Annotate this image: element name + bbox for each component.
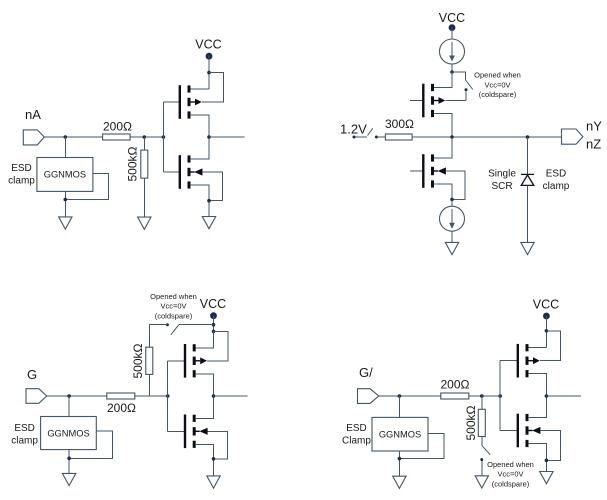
junction gate bus (G)	[166, 394, 170, 398]
wire GGNMOS feedback loop (G)	[69, 431, 113, 458]
wire NMOS source (Y)	[434, 184, 453, 199]
junction 500k tap	[143, 135, 147, 139]
wire 500k bottom to input line	[148, 374, 150, 396]
svg-text:clamp: clamp	[11, 436, 38, 447]
wire GGNMOS bottom to ground (G/)	[398, 451, 400, 476]
svg-text:(coldspare): (coldspare)	[155, 312, 193, 321]
junction gate bus (G/)	[498, 394, 502, 398]
current source I1	[440, 39, 465, 64]
svg-text:G: G	[27, 367, 37, 382]
transistor NMOS (G/)	[517, 414, 541, 448]
wire to current source 2	[451, 199, 453, 206]
wire NMOS body loop (Y)	[446, 171, 465, 199]
transistor NMOS (Y)	[422, 154, 446, 188]
svg-text:500kΩ: 500kΩ	[125, 146, 139, 181]
wire down to SCR diode	[527, 137, 529, 174]
port connector G/	[358, 389, 379, 404]
svg-text:Clamp: Clamp	[342, 436, 371, 447]
wire PMOS body from switch	[445, 100, 466, 102]
ground (SCR)	[521, 242, 534, 254]
VCC terminal dot (A)	[206, 53, 213, 60]
wire PMOS drain (G)	[195, 374, 213, 396]
wire VCC to current source	[451, 27, 453, 39]
svg-text:VCC: VCC	[533, 297, 559, 311]
wire VCC down to source (G)	[213, 316, 215, 348]
svg-text:ESD: ESD	[11, 163, 32, 174]
junction GGNMOS ground node (G/)	[398, 457, 402, 461]
wire VCC down to source (G/)	[545, 316, 547, 348]
VCC terminal dot (Y)	[449, 24, 456, 31]
wire NMOS body loop (G/)	[540, 431, 560, 461]
wire PMOS body loop (G)	[207, 331, 228, 360]
svg-text:200Ω: 200Ω	[441, 378, 470, 392]
junction drain node (Y)	[450, 135, 454, 139]
junction GGNMOS ground node	[64, 198, 68, 202]
wire GGNMOS bottom to ground (G)	[68, 450, 70, 474]
svg-text:GGNMOS: GGNMOS	[379, 430, 421, 440]
svg-text:300Ω: 300Ω	[385, 117, 414, 131]
junction NMOS source node (G)	[212, 457, 216, 461]
wire down to GGNMOS (G)	[68, 396, 70, 417]
wire NMOS gate lead (G)	[168, 430, 185, 432]
VCC terminal dot (G)	[210, 312, 217, 319]
junction SCR tap	[526, 135, 530, 139]
junction source/body node	[207, 71, 211, 75]
wire G to 200ohm	[47, 395, 107, 397]
svg-text:Vcc=0V: Vcc=0V	[160, 302, 186, 311]
junction NMOS source node	[207, 199, 211, 203]
terminal dot 1.2V	[353, 136, 356, 139]
wire to 300ohm	[378, 136, 386, 138]
svg-text:Single: Single	[488, 169, 516, 180]
VCC terminal dot (G/)	[543, 313, 550, 320]
junction below current source	[450, 70, 454, 74]
wire SCR to ground	[527, 185, 529, 242]
switch blade (1.2V)	[368, 128, 373, 135]
wire NMOS drain to output	[190, 137, 209, 159]
svg-text:Vcc=0V: Vcc=0V	[484, 81, 510, 90]
wire G/ to 200ohm	[379, 395, 441, 397]
svg-text:1.2V: 1.2V	[340, 122, 367, 137]
resistor 300ohm	[385, 134, 412, 140]
wire NMOS body loop	[202, 172, 222, 201]
svg-text:200Ω: 200Ω	[103, 120, 132, 134]
transistor PMOS (Y)	[422, 84, 445, 118]
switch coldspare (G)	[166, 323, 169, 326]
ground (inverter G)	[207, 476, 220, 488]
svg-text:Opened when: Opened when	[474, 71, 521, 80]
wire output stub (G/)	[546, 395, 581, 397]
junction switch node (G)	[212, 323, 216, 327]
wire 500k top to switch	[149, 325, 167, 348]
ground (GGNMOS G)	[62, 473, 75, 485]
svg-text:VCC: VCC	[195, 37, 221, 51]
current source I2	[440, 206, 465, 231]
wire NMOS source (G/)	[528, 444, 547, 472]
wire nA to 200ohm resistor	[44, 136, 102, 138]
wire GGNMOS feedback loop (G/)	[399, 433, 444, 458]
junction gate bus	[162, 135, 166, 139]
port connector G	[26, 389, 47, 404]
wire NMOS drain (G/)	[528, 396, 547, 418]
transistor PMOS (G/)	[517, 344, 540, 378]
svg-text:200Ω: 200Ω	[107, 401, 136, 415]
ground (GGNMOS G/)	[393, 476, 406, 488]
port connector nY/nZ	[562, 129, 583, 144]
svg-text:ESD: ESD	[14, 423, 35, 434]
diode single SCR	[521, 174, 534, 185]
wire current source 2 to ground	[451, 231, 453, 242]
junction output node (G/)	[545, 394, 549, 398]
ground (inverter A)	[202, 217, 215, 229]
svg-text:Vcc=0V: Vcc=0V	[497, 470, 523, 479]
wire down to GGNMOS (G/)	[398, 396, 400, 417]
wire PMOS gate lead (G/)	[500, 360, 517, 362]
svg-text:(coldspare): (coldspare)	[479, 90, 517, 99]
svg-text:500kΩ: 500kΩ	[131, 343, 145, 378]
resistor 200ohm (G)	[107, 393, 135, 399]
wire NMOS drain (G)	[195, 396, 213, 418]
transistor PMOS (A)	[179, 85, 202, 119]
junction output node (A)	[207, 135, 211, 139]
junction GGNMOS ground node (G)	[67, 457, 71, 461]
wire gate bus vertical (G)	[167, 361, 169, 432]
wire resistor to gate bus (G/)	[469, 395, 500, 397]
GGNMOS U2 box	[41, 417, 97, 450]
wire gate bus vertical	[162, 102, 164, 172]
wire gate bus vertical (G/)	[499, 361, 501, 431]
wire 1.2V to switch	[356, 136, 368, 138]
wire PMOS source (G/)	[528, 347, 547, 349]
junction output node (G)	[212, 394, 216, 398]
wire NMOS drain (Y)	[434, 137, 453, 158]
wire GGNMOS bottom to ground	[64, 191, 66, 217]
wire output line (Y)	[412, 136, 561, 138]
GGNMOS U3 box	[372, 417, 428, 451]
switch coldspare (Y)	[452, 72, 466, 80]
wire PMOS gate lead	[163, 101, 179, 103]
switch coldspare (G/)	[481, 437, 483, 446]
wire PMOS drain to output	[190, 115, 209, 137]
wire NMOS source (G)	[195, 444, 213, 476]
junction body node (G)	[212, 330, 216, 334]
transistor NMOS (A)	[179, 155, 203, 189]
wire NMOS gate lead (Y)	[410, 170, 423, 172]
wire PMOS source (G)	[195, 331, 213, 347]
junction 500k tap (G/)	[480, 394, 484, 398]
ground (500k G/)	[475, 476, 488, 488]
resistor 200ohm (A)	[103, 134, 131, 140]
svg-text:clamp: clamp	[8, 176, 35, 187]
terminal dot 2	[375, 136, 378, 139]
svg-text:Opened when: Opened when	[150, 292, 197, 301]
wire PMOS drain (G/)	[528, 374, 547, 396]
junction body node (G/)	[545, 329, 549, 333]
resistor 200ohm (G/)	[441, 393, 469, 399]
wire down to 500k (G/)	[481, 396, 483, 409]
wire resistor to gate bus	[130, 136, 163, 138]
ground (current source)	[445, 242, 458, 254]
resistor 500kohm (A)	[141, 150, 148, 178]
svg-text:nZ: nZ	[586, 137, 601, 152]
wire NMOS gate lead (G/)	[500, 430, 517, 432]
svg-text:ESD: ESD	[546, 169, 567, 180]
transistor PMOS (G)	[184, 344, 207, 378]
svg-text:Opened when: Opened when	[487, 460, 534, 469]
svg-text:GGNMOS: GGNMOS	[47, 429, 89, 439]
wire output stub (G)	[214, 395, 248, 397]
wire resistor to gate bus (G)	[135, 395, 168, 397]
junction NMOS source node (Y)	[450, 198, 454, 202]
wire NMOS gate lead	[163, 171, 179, 173]
svg-text:ESD: ESD	[346, 423, 367, 434]
svg-text:VCC: VCC	[200, 297, 226, 311]
svg-text:G/: G/	[359, 365, 373, 380]
junction NMOS source node (G/)	[545, 459, 549, 463]
resistor 500kohm (G)	[146, 347, 153, 374]
wire PMOS drain (Y)	[434, 114, 453, 138]
svg-text:SCR: SCR	[491, 181, 512, 192]
wire GGNMOS feedback loop	[65, 173, 108, 199]
transistor NMOS (G)	[184, 415, 208, 449]
resistor 500kohm (G/)	[478, 409, 485, 436]
wire down to 500k	[143, 137, 145, 150]
junction ESD tap (G)	[67, 394, 71, 398]
wire NMOS body loop (G)	[208, 431, 228, 459]
wire current source to node	[451, 64, 453, 72]
svg-text:VCC: VCC	[439, 11, 465, 25]
wire PMOS gate lead (G)	[168, 360, 185, 362]
wire VCC to source node	[208, 55, 210, 89]
ground (500k A)	[138, 217, 151, 229]
wire PMOS gate lead (Y)	[410, 100, 423, 102]
svg-text:(coldspare): (coldspare)	[492, 480, 530, 489]
svg-text:500kΩ: 500kΩ	[464, 405, 478, 440]
ground (GGNMOS A)	[59, 217, 72, 229]
wire 500k to ground	[143, 178, 145, 217]
wire down to GGNMOS	[64, 137, 66, 158]
wire PMOS source (Y)	[434, 72, 453, 88]
svg-text:nY: nY	[586, 119, 602, 134]
port connector nA	[23, 130, 44, 145]
wire PMOS body loop (G/)	[540, 331, 561, 361]
svg-text:nA: nA	[25, 107, 41, 122]
wire NMOS source stub	[190, 185, 209, 217]
svg-text:clamp: clamp	[543, 181, 570, 192]
wire PMOS source stub	[190, 88, 209, 90]
junction ESD tap (G/)	[398, 394, 402, 398]
junction ESD tap	[64, 135, 68, 139]
wire PMOS body loop	[202, 73, 224, 102]
svg-text:GGNMOS: GGNMOS	[44, 170, 86, 180]
wire output stub (A)	[209, 136, 245, 138]
ground (inverter G/)	[540, 472, 553, 484]
GGNMOS U1 box	[37, 158, 93, 192]
